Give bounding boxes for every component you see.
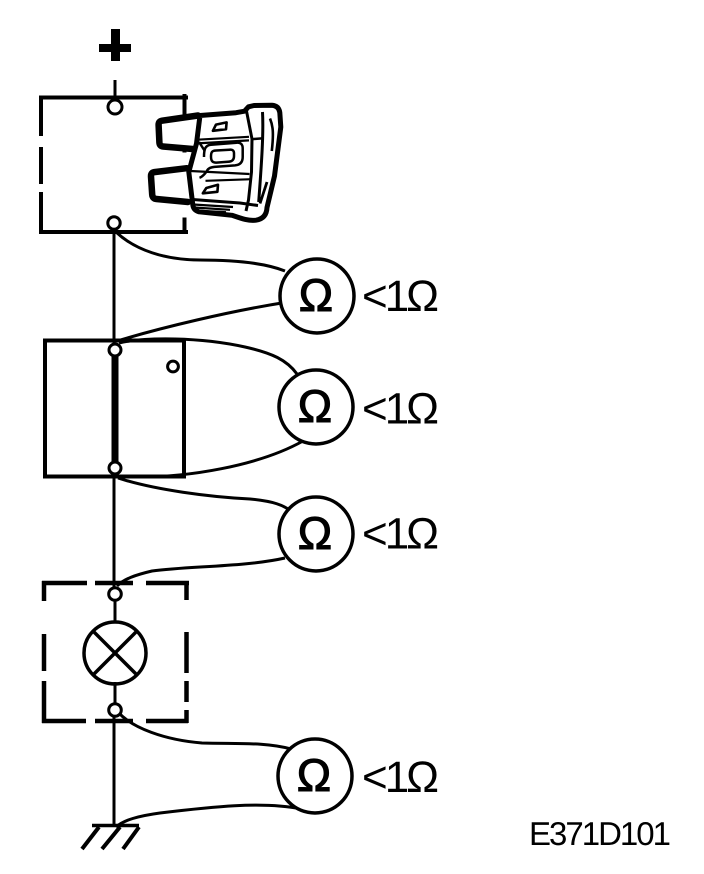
switch contact bar [112,354,119,464]
fuse body outline [189,105,281,220]
wire: curve C5 from switch box bottom terminal to ohmmeter 3 [118,478,293,513]
switch box terminal bottom [109,462,121,474]
svg-text:<1Ω: <1Ω [362,753,437,802]
wire: curve C3 from switch box top terminal to ohmmeter 2 [119,339,297,374]
switch box small circle [168,361,179,372]
fuse terminal circle top [108,100,122,114]
svg-text:Ω: Ω [297,749,331,801]
fuse F1 blade fuse illustration [151,105,281,220]
svg-text:E371D101: E371D101 [529,815,670,852]
fuse bottom band hatch lines [194,205,234,208]
wire: curve C6 from ohmmeter 3 to lamp box top terminal [117,558,285,586]
fuse box (dashed outline) [39,94,188,234]
fuse top window divider lines [198,137,250,140]
wire from switch box bottom to lamp box top terminal [113,476,116,590]
wire from fuse box bottom terminal to switch box top terminal [113,228,116,346]
svg-text:Ω: Ω [298,380,332,432]
eraser below lower prong [177,201,193,218]
lamp circle with X [84,622,146,684]
wire: curve C8 from ohmmeter 4 to ground [116,805,301,827]
ohmmeter 2 [279,370,353,444]
body eraser [189,105,281,220]
wire: curve C2 from ohmmeter 1 to switch box top terminal [117,302,288,341]
lamp box terminal top [109,588,122,601]
svg-text:Ω: Ω [298,507,332,559]
fuse blade prong lower [151,168,188,202]
switch box terminal top [109,344,121,356]
fuse element meander inner [211,150,234,163]
fuse right face left line [246,111,252,211]
fuse top-right face bottom edge [252,138,264,139]
wire terminal to lamp [114,601,117,624]
lamp box (dashed outline) [42,581,189,723]
fuse bottom band top line [193,200,259,206]
svg-text:<1Ω: <1Ω [362,385,437,434]
fuse right edge accent [270,119,273,152]
ohmmeter 1 [280,259,354,333]
svg-text:<1Ω: <1Ω [362,510,437,559]
fuse element tail [200,172,207,178]
bridge eraser between prongs [177,153,197,168]
fuse lower divider lines [191,171,250,174]
wire: curve C7 from lamp box bottom terminal to ohmmeter 4 [118,712,291,749]
wire: curve C1 from fuse box terminal to ohmmeter 1 [116,232,285,271]
wire stub from + down to fuse box terminal [114,80,117,100]
ohmmeter 3 [279,497,353,571]
fuse terminal circle bottom [108,217,120,229]
fuse bottom hole [203,185,218,194]
switch box (solid outline) [45,341,184,477]
fuse window left edge [199,142,205,151]
svg-text:Ω: Ω [299,269,333,321]
battery plus terminal symbol [99,29,131,61]
wire: curve C4 from ohmmeter 2 to switch box bottom terminal [118,441,303,477]
fuse top hole [213,122,227,130]
wire lamp to bottom terminal [114,682,117,704]
fuse blade prong upper [159,116,199,150]
lamp box terminal bottom [109,704,122,717]
ohmmeter 4 [278,739,352,813]
fuse right face right line [259,112,263,202]
wire from lamp box bottom terminal to ground [113,716,116,827]
fuse element meander outer [204,143,243,172]
svg-text:<1Ω: <1Ω [362,272,437,321]
ground symbol [82,826,139,850]
